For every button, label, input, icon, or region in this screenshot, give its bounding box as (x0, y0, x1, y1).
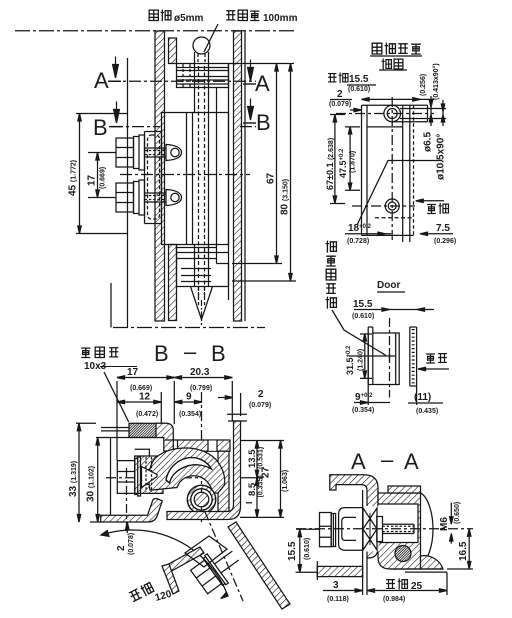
door fold (hatched) (156, 423, 173, 451)
svg-text:B: B (211, 341, 226, 366)
svg-text:7.5: 7.5 (436, 223, 450, 234)
pivot ring inner (191, 489, 212, 510)
frame rail mid lower (hatched) (169, 245, 177, 321)
svg-text:27: 27 (261, 466, 272, 478)
open door bent piece 1 (hatched) (163, 547, 204, 573)
svg-text:17: 17 (87, 174, 98, 186)
door bottom sheet (hatched) (317, 566, 362, 576)
svg-text:B: B (154, 341, 169, 366)
svg-text:ø6.5: ø6.5 (423, 132, 434, 152)
svg-text:67: 67 (266, 172, 277, 184)
upper bracket (177, 63, 295, 65)
screw head (377, 517, 383, 542)
svg-text:(0.435): (0.435) (416, 408, 438, 415)
hole 1 (384, 105, 401, 122)
open door sheet (hatched) (228, 522, 290, 609)
frame rail right (hatched) (234, 31, 242, 321)
title 门框 (382, 59, 392, 70)
svg-text:–: – (184, 339, 197, 364)
open hex bolt (189, 541, 247, 597)
dim 16.5 (468, 529, 470, 569)
title 开口尺寸 (372, 43, 382, 54)
svg-text:16.5: 16.5 (458, 541, 469, 561)
svg-text:(0.296): (0.296) (434, 238, 456, 245)
section B arrow left (116, 102, 118, 110)
svg-text:(0.610): (0.610) (352, 313, 374, 320)
open clamp block (185, 536, 227, 567)
hinge leaf edge double (368, 327, 373, 385)
center ext line (349, 355, 384, 357)
dim 30 line (97, 438, 99, 523)
svg-text:9: 9 (186, 392, 192, 403)
dim 27 line (280, 441, 282, 518)
dim 67 extension (232, 263, 282, 265)
svg-text:13.5: 13.5 (247, 449, 258, 468)
block bottom line (390, 569, 447, 572)
svg-text:(0.610): (0.610) (348, 86, 370, 93)
dim row1 line (117, 377, 232, 379)
door inner panel (96, 438, 156, 516)
bolt 1 washers (134, 135, 145, 170)
label 铰链中心线 vertical (326, 241, 337, 253)
dim 13.5 text (247, 449, 258, 468)
hex bolt head AA (320, 513, 332, 547)
dim 2 bottom (door sheet) (126, 522, 129, 533)
svg-text:(0.650): (0.650) (454, 502, 461, 524)
svg-text:A: A (404, 449, 419, 474)
svg-text:2: 2 (116, 545, 127, 551)
leader 密封条 (104, 372, 129, 422)
washers BB (135, 457, 141, 496)
dim 47.5 line (349, 127, 351, 190)
leader to hole2 (357, 161, 442, 226)
dim 27 text (261, 466, 272, 478)
frame angle (hatched) (330, 475, 378, 558)
svg-text:(0.728): (0.728) (347, 238, 369, 245)
svg-text:(0.079): (0.079) (329, 101, 351, 108)
frame face line inner (228, 64, 230, 301)
pin tip cone (191, 287, 213, 320)
svg-text:17: 17 (127, 367, 139, 378)
section A arrow right (250, 60, 252, 68)
pin label 销轴 (149, 10, 158, 20)
edge extensions below (403, 235, 410, 242)
svg-text:(0.610): (0.610) (304, 538, 311, 560)
dim 67 line (276, 64, 278, 264)
bolt horizontal centerline (106, 477, 231, 479)
hidden edge (413, 105, 415, 235)
arm inner slot (166, 458, 212, 483)
section B cut line (111, 126, 256, 128)
frame face line outer (244, 31, 246, 321)
svg-text:(0.354): (0.354) (352, 407, 374, 414)
pivot ring (hatched annulus) (187, 485, 215, 513)
svg-text:B: B (93, 115, 108, 140)
svg-text:(0.984): (0.984) (383, 596, 405, 603)
svg-text:12: 12 (139, 392, 151, 403)
hole edge ext lines (400, 109, 446, 119)
clamp U inner (342, 517, 356, 540)
外侧 label (426, 354, 435, 363)
label 密封条 10x3 (81, 348, 90, 357)
section A arrow left (115, 57, 117, 65)
M6 text (439, 517, 450, 531)
120 deg label (154, 588, 177, 604)
pin shaft hidden lines (198, 54, 205, 64)
open leaf centerline (205, 512, 243, 601)
svg-text:(0.413x90°): (0.413x90°) (432, 63, 440, 100)
dia dim ticks (429, 96, 432, 126)
section A cut line (108, 80, 256, 82)
hinge body outline (162, 113, 229, 245)
svg-text:B: B (256, 110, 271, 135)
frame rail left (hatched) (155, 31, 165, 321)
plate bottom ext lines (368, 385, 416, 406)
dim 2 arrows (350, 108, 362, 111)
dia labels rotated (423, 132, 434, 152)
body hidden centers (199, 66, 205, 300)
seal 10x3 crosshatched (129, 423, 165, 437)
hinge arm neck (hatched) (149, 448, 225, 493)
svg-text:(1.870): (1.870) (350, 151, 357, 173)
leader to pin label (204, 24, 218, 52)
clamp hidden thread (146, 457, 152, 492)
hole 1 slot (392, 105, 427, 122)
top centerline (15, 30, 296, 32)
svg-text:–: – (381, 447, 394, 472)
right ext lines (240, 441, 284, 518)
svg-text:A: A (255, 71, 270, 96)
dim 80 text (280, 179, 291, 215)
svg-text:ø10.5x90°: ø10.5x90° (436, 134, 447, 180)
lower bracket (177, 245, 229, 287)
frame wall cap (227, 414, 247, 421)
svg-text:(0.531): (0.531) (258, 447, 265, 469)
svg-text:(1.240): (1.240) (358, 349, 365, 371)
dim 15.5 line (362, 98, 435, 100)
door skin lines (101, 428, 165, 431)
svg-text:15.5: 15.5 (287, 541, 298, 561)
dim 15.5 ext (296, 529, 321, 572)
center cross (384, 351, 395, 362)
block upper step (hatched) (388, 486, 421, 493)
clamp bolt slot (135, 471, 151, 484)
hole 1 centerline (336, 113, 434, 115)
hinge block (hatched) (378, 493, 421, 569)
body mid centerline (120, 174, 250, 176)
bolt 2 washers (134, 180, 145, 215)
dim 80 line (290, 64, 292, 282)
block foot (hatched) (421, 556, 444, 569)
door plate (368, 333, 399, 385)
dim 45 extension lines (76, 114, 128, 234)
dim row2 lines (117, 401, 202, 403)
svg-text:Door: Door (377, 280, 400, 291)
door gap lines (363, 490, 367, 595)
knuckle top block (hatched) (178, 440, 231, 451)
dim 15.5 text (287, 541, 298, 561)
svg-text:(0.256): (0.256) (420, 74, 427, 96)
swing arc 120 (101, 530, 228, 596)
block right bulge (421, 493, 434, 565)
svg-text:M6: M6 (439, 517, 450, 531)
svg-text:15.5: 15.5 (353, 299, 373, 310)
dim 8.5 text (247, 482, 258, 496)
bolt 2 shaft (145, 193, 167, 202)
open door bent piece 2 (hatched) (162, 564, 179, 594)
pin bottom shaft (195, 245, 209, 287)
disc springs (363, 508, 377, 550)
svg-text:A: A (351, 449, 366, 474)
screw slot (379, 504, 419, 543)
hole 2 centerline (352, 205, 415, 207)
hex bolt head BB (117, 461, 134, 494)
door lower inner edge (110, 283, 112, 328)
svg-text:2: 2 (258, 389, 264, 400)
svg-text:100mm: 100mm (263, 13, 298, 24)
pin head circle (193, 37, 210, 54)
dim 13.5 line (256, 441, 258, 478)
mount plate (145, 132, 162, 224)
body vertical lines (187, 113, 217, 245)
svg-text:(11): (11) (414, 392, 431, 403)
dim 45 text (68, 160, 79, 196)
dim 80 extension (232, 280, 296, 282)
dim 31.5 line (364, 334, 366, 378)
dim 17 line (97, 153, 99, 198)
外侧 arrow (418, 367, 449, 370)
dim M6 ticks (450, 503, 453, 525)
frame rail mid upper (hatched) (169, 38, 177, 64)
bolt 2 cone tip (166, 190, 182, 206)
svg-text:A: A (94, 68, 109, 93)
screw centerline (296, 528, 473, 530)
pivot outer circle (187, 485, 215, 513)
dim 31.5 text (345, 345, 355, 375)
knuckle right wall (hatched) (218, 451, 229, 511)
bolt 1 head (116, 138, 134, 167)
dim 67 text (266, 172, 277, 184)
plate vertical centerline (389, 318, 391, 398)
svg-text:8.5: 8.5 (247, 482, 258, 496)
vertical centerline (391, 97, 393, 243)
bolt cone tip (142, 467, 158, 488)
外部 arrow (416, 199, 444, 202)
clamp block (hatched) (135, 456, 163, 493)
dim 67 line (334, 115, 336, 204)
screw thread hidden (382, 526, 414, 531)
dim 25 ext (446, 572, 448, 595)
svg-text:20.3: 20.3 (190, 367, 210, 378)
bolt 1 cone tip (166, 145, 182, 161)
svg-text:3: 3 (333, 580, 339, 591)
外部 label (427, 204, 436, 213)
total length label 总长度 (226, 11, 235, 20)
recess lines (367, 126, 403, 128)
bolt 2 head (116, 183, 134, 212)
dim min 15.5 (328, 74, 336, 82)
svg-text:(0.118): (0.118) (327, 596, 349, 603)
frame edge dotted column (410, 327, 417, 386)
extension verticals (117, 381, 241, 460)
door bottom line (90, 521, 101, 523)
leader of centerline label (332, 310, 386, 356)
bottom centerline (113, 327, 265, 329)
dim min 25 (386, 580, 395, 589)
pin shaft (195, 52, 209, 64)
clamp step (135, 449, 150, 456)
mount plate dashed contour (148, 135, 160, 219)
pivot pin (hatched) (194, 492, 209, 507)
svg-text:15.5: 15.5 (349, 74, 369, 85)
svg-text:(1.063): (1.063) (282, 470, 289, 492)
door bottom fold (hatched) (101, 499, 163, 522)
door edge line (127, 58, 129, 328)
pivot vertical centerline (201, 392, 203, 524)
dim 33 line (78, 423, 80, 522)
svg-text:ø5mm: ø5mm (174, 13, 204, 24)
dim 15.5 line (299, 529, 301, 572)
frame wall right (hatched) (167, 421, 241, 520)
bolt 1 shaft (145, 148, 167, 157)
svg-text:(0.079): (0.079) (249, 402, 271, 409)
svg-text:(0.078): (0.078) (128, 533, 135, 555)
plate outline (362, 105, 368, 235)
svg-text:(0.472): (0.472) (136, 411, 158, 418)
hole 2 (385, 199, 399, 213)
screw shaft (382, 524, 414, 533)
dim 8.5 line (256, 478, 258, 518)
section B arrow right (250, 99, 252, 107)
dim 30 text (86, 466, 97, 502)
washers AA (331, 514, 335, 547)
svg-text:(0.354): (0.354) (179, 411, 201, 418)
大约 label (128, 581, 154, 602)
dim 17 extension lines (88, 153, 116, 198)
dim 67 text (325, 138, 335, 190)
svg-text:2: 2 (337, 89, 343, 100)
door sheet cap (316, 561, 318, 580)
dim 33 text (68, 461, 79, 497)
dim 45 line (79, 114, 81, 234)
dim 17 text (87, 174, 98, 186)
leg cutout at screw (366, 506, 378, 552)
knuckle top notch (208, 441, 217, 451)
dim 47.5 text (338, 148, 348, 178)
clamp U outer (339, 508, 363, 551)
svg-text:(0.669): (0.669) (100, 167, 107, 189)
bolt shaft BB (141, 470, 167, 485)
cross-hole (hatched) (395, 546, 411, 562)
svg-text:(0.799): (0.799) (190, 385, 212, 392)
